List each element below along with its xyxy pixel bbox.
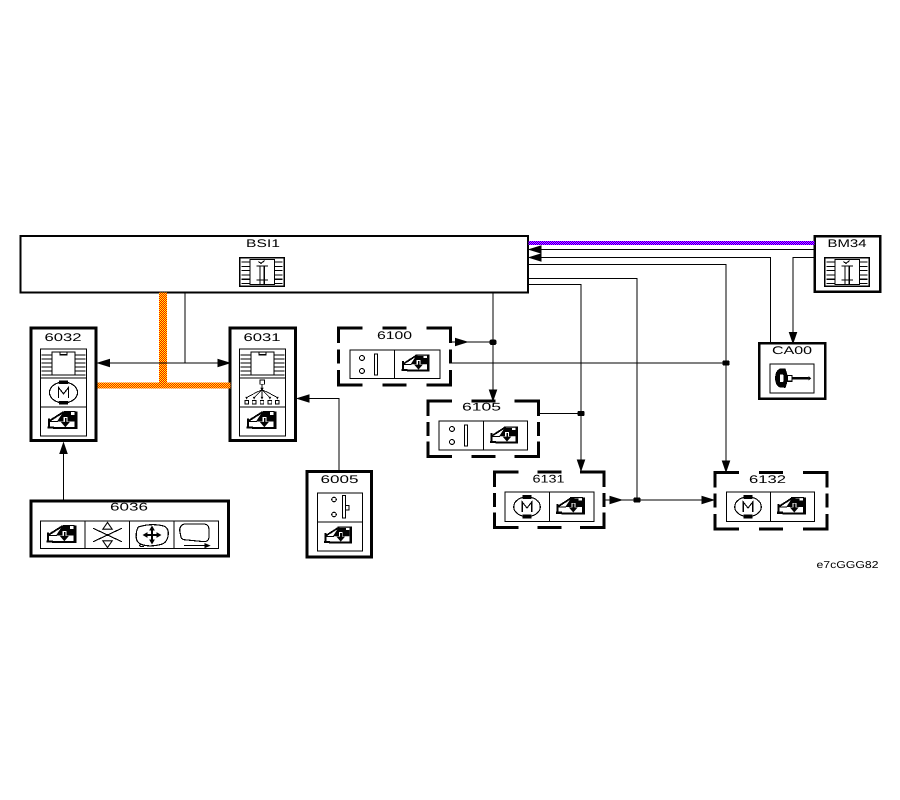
dashed box 6105 front switch [428,401,539,457]
IC icon in 6032 [42,352,86,375]
arrowhead into 6105 top [489,390,496,401]
dashed box 6100 front switch [339,328,451,385]
wire 6100 to 6132 drop line [452,362,727,364]
arrowhead into CA00 top [789,333,796,344]
mirror adjust icon in 6036 [136,525,168,547]
arrowhead out of 6131 right [610,496,622,503]
wire 6105 to 6131 drop line [539,413,582,415]
up-down arrows icon in 6036 [93,522,122,547]
ECU box BSI1 [21,236,529,293]
window-lift icon in 6100 [402,355,430,372]
wire 6005 to 6031 [298,399,339,472]
arrowhead into 6032 bottom [60,443,67,454]
wire BSI1 to BM34 line 1 [528,249,815,251]
mirror fold icon in 6036 [180,524,211,548]
arrowhead into 6032 right edge [98,359,110,366]
wire 6036 to 6032 [63,444,65,501]
wire link 6131 to 6132 [606,499,715,501]
wire BSI1 to CA00 line 2 [528,258,771,343]
window-lift icon in 6105 [490,427,518,444]
window-lift icon in 6132 [777,497,806,514]
junction dot at 6132 drop [723,360,730,365]
motor icon in 6032 [49,380,77,404]
dashed box 6131 rear motor unit [495,472,605,528]
connector icon in BM34 [825,258,870,287]
wire BSI1 to 6132 line 3 [528,265,726,463]
arrowhead into BSI1 on line 2 [530,254,542,261]
wire supply 6032 to 6031 (orange) horizontal [98,383,231,389]
wire supply BSI1 to 6032/6031 (orange) vertical [159,293,167,389]
ECU box BM34 [815,236,880,291]
IC icon in 6031 [241,352,285,375]
window-lift icon in 6032 [47,411,77,429]
arrowhead into 6132 top [722,461,729,472]
junction dot at 6131 drop [578,411,585,416]
wire BM34 to CA00 [793,258,815,335]
arrowhead into BSI1 on line 1 [530,246,542,253]
wire BSI1 down to 6105 [492,293,494,392]
distribution tree icon in 6031 [245,380,279,404]
junction dot on 6131-6132 link [634,497,641,502]
drawing code text [817,561,878,568]
arrowhead out of 6100 right [456,338,468,345]
arrowhead into 6031 right edge [298,395,310,402]
window-lift icon in 6005 [324,527,352,544]
junction dot 6100 line at 6105 drop [490,340,497,345]
arrowhead into 6031 left edge [218,359,230,366]
box 6036 driver control panel [31,501,229,556]
switch icon in 6100 [360,354,378,375]
motor icon in 6132 [735,495,762,518]
window-lift icon in 6036 [46,525,76,543]
wire BSI1 to 6131 line 5 [528,285,581,462]
switch icon in 6005 [332,496,349,519]
wire 6100 to 6105 drop line [452,341,494,343]
motor icon in 6131 [514,495,541,518]
box 6005 rear window switch [307,472,372,558]
wire BSI1 down to inter-module link [184,293,186,364]
wire VAN bus BSI1 to BM34 (violet) [529,241,815,245]
dashed box 6132 rear motor unit [715,472,827,529]
wire link 6032 to 6031 double arrow [98,362,231,364]
window-lift icon in 6031 [246,411,276,429]
arrowhead into 6131 top [577,460,584,471]
box 6032 driver window module [31,328,96,441]
key icon in CA00 [775,369,811,388]
connector icon in BSI1 [240,258,285,287]
window-lift icon in 6131 [556,497,585,514]
box 6031 passenger window module [230,328,296,441]
box CA00 ignition switch [759,343,825,399]
wire BSI1 to rear link line 4 [528,279,637,501]
switch icon in 6105 [450,425,468,446]
arrowhead into 6132 left edge [702,496,714,503]
